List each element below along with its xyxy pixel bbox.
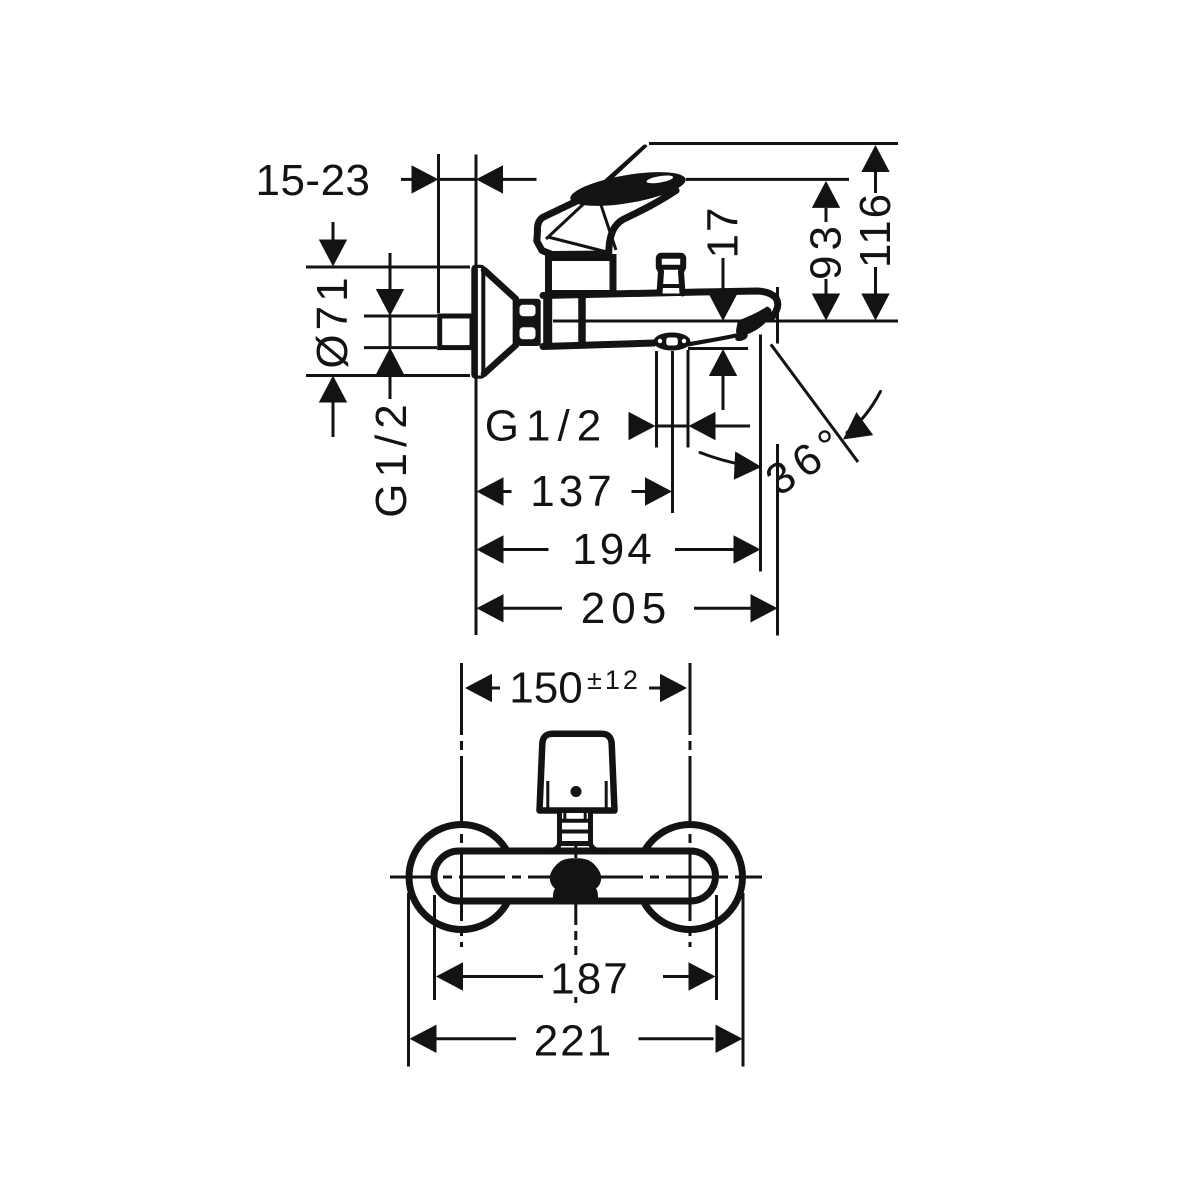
dimension line 221 [410, 1025, 743, 1053]
lever facet line [548, 202, 616, 252]
svg-text:221: 221 [534, 1017, 613, 1066]
handle base block [549, 258, 614, 294]
handle screw [571, 786, 582, 797]
svg-text:±12: ±12 [587, 665, 641, 695]
dimension line 93 [812, 181, 840, 321]
dimension line G1/2 [629, 412, 751, 440]
label 15-23 [255, 156, 370, 205]
dimension line 15-23 [401, 165, 537, 193]
spout angle arc [700, 392, 881, 480]
extension line escutcheon face (x=476) [475, 155, 478, 636]
right escutcheon [638, 825, 743, 930]
spout underside edge [688, 336, 736, 345]
svg-text:15-23: 15-23 [255, 156, 370, 205]
extension line B (top of closed lever grip, y=179.4) [686, 178, 849, 181]
dimension line &#216;71 with arrows [319, 222, 347, 437]
label 187 [550, 955, 629, 1004]
escutcheon flare [484, 270, 516, 374]
dimension line G1/2 left [376, 253, 404, 399]
extension lines 221 [409, 893, 744, 1067]
label 205 [581, 584, 672, 633]
dimension line 17 [709, 258, 737, 410]
open lever phantom lines [546, 145, 647, 239]
right centre line [689, 663, 692, 947]
svg-text:194: 194 [572, 525, 654, 574]
mixer body bottom edge [543, 343, 654, 347]
extension line wall plane left (x=438.5) [437, 154, 440, 313]
label tolerance [587, 665, 641, 695]
label 194 [572, 525, 654, 574]
extension lines hose connection [657, 350, 689, 448]
centre connection [550, 858, 601, 903]
outlet bottom extension line [688, 347, 748, 350]
hose connection centre line [671, 351, 674, 513]
label 17 [699, 206, 748, 259]
svg-text:93: 93 [802, 221, 851, 280]
dimension line 187 [436, 962, 716, 990]
svg-text:17: 17 [699, 206, 748, 259]
label G1/2 [485, 401, 608, 450]
label 221 [534, 1017, 613, 1066]
shower hose connection [654, 333, 691, 351]
cartridge neck [549, 811, 601, 852]
label 116 [851, 192, 900, 268]
diverter knob [659, 256, 683, 294]
vertical centre line [574, 745, 577, 1003]
left escutcheon [409, 825, 514, 930]
mixer body left cap [543, 292, 552, 350]
left centre line [460, 663, 463, 947]
dimension line 116 [861, 145, 889, 321]
extension line C (spout outlet top plane, y=321) [553, 320, 898, 323]
escutcheon rim [471, 265, 485, 379]
extension lines wall union stub [364, 316, 437, 348]
extension lines 187 [435, 895, 717, 1000]
handle front [540, 734, 615, 811]
lever grip [568, 165, 688, 212]
spout angle line [771, 344, 858, 462]
dimension line 150 [465, 674, 687, 702]
connection nut [518, 299, 541, 346]
label 36&#176; [757, 416, 857, 506]
handle inner edges [548, 781, 606, 808]
mixer body top edge [543, 291, 778, 319]
svg-text:205: 205 [581, 584, 672, 633]
label 150 [509, 664, 582, 713]
extension line A (top of open lever, y=143.5) [649, 142, 898, 145]
label 137 [530, 467, 615, 516]
dimension line 137 [477, 477, 673, 505]
extension line spout tip (x=777.5) [776, 287, 779, 636]
horizontal centre line [390, 876, 762, 879]
svg-text:G1/2: G1/2 [485, 401, 608, 450]
svg-text:116: 116 [851, 192, 900, 268]
wall union stub block [440, 316, 472, 348]
extension lines escutcheon diameter [306, 267, 470, 376]
dimension line 194 [477, 535, 761, 563]
svg-text:G1/2: G1/2 [367, 398, 416, 517]
spout outlet crescent [734, 307, 771, 343]
label G1/2 left [367, 398, 416, 517]
extension line spout outlet (x=760.5) [759, 335, 762, 572]
dimension line 205 [477, 594, 778, 622]
mixer body divider [578, 296, 586, 346]
label &#216;71 [308, 273, 357, 368]
svg-text:137: 137 [530, 467, 615, 516]
svg-text:150: 150 [509, 664, 582, 713]
svg-text:Ø71: Ø71 [308, 273, 357, 368]
mixer body front [434, 851, 716, 901]
label 93 [802, 221, 851, 280]
svg-text:187: 187 [550, 955, 629, 1004]
lever body [537, 191, 676, 255]
